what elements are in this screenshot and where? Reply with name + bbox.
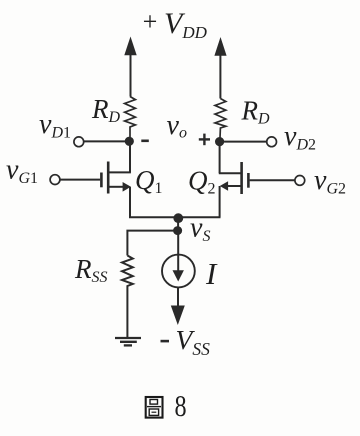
terminal vD2 — [267, 137, 277, 147]
transistor Q1 — [101, 162, 130, 194]
svg-text:8: 8 — [175, 389, 187, 424]
svg-text:Q2: Q2 — [188, 166, 216, 198]
wire drain left — [129, 141, 131, 172]
transistor Q2 — [219, 162, 249, 194]
svg-text:vD2: vD2 — [284, 121, 316, 154]
wire vD2 — [224, 141, 267, 143]
wire source Q2 — [219, 186, 221, 217]
svg-text:RD: RD — [91, 94, 121, 126]
terminal vG1 — [50, 175, 60, 185]
VSS arrow — [171, 306, 185, 326]
svg-text:+: + — [141, 7, 159, 36]
wire gate Q1 — [60, 179, 100, 181]
svg-text:VDD: VDD — [164, 7, 208, 42]
VDD arrow left — [124, 37, 136, 97]
node source upper — [173, 213, 183, 223]
wire node stub — [177, 218, 179, 231]
wire source Q1 — [129, 187, 131, 218]
svg-text:RD: RD — [241, 96, 271, 128]
current source I — [162, 255, 195, 288]
wire common source — [129, 216, 221, 218]
svg-text:vG2: vG2 — [314, 165, 346, 198]
wire vD1 — [84, 140, 129, 142]
svg-text:I: I — [205, 256, 218, 291]
resistor RSS — [122, 256, 133, 338]
label +VDD — [141, 7, 208, 42]
VDD arrow right — [214, 37, 226, 99]
svg-text:Q1: Q1 — [135, 165, 163, 197]
node drain right — [215, 137, 224, 146]
wire gate Q2 — [250, 179, 295, 181]
svg-text:vD1: vD1 — [39, 109, 71, 142]
svg-text:vG1: vG1 — [6, 155, 38, 188]
node source lower — [173, 226, 182, 235]
svg-text:RSS: RSS — [74, 254, 108, 286]
svg-text:vo: vo — [167, 110, 187, 142]
label vo minus — [141, 140, 149, 143]
caption figure glyph — [146, 397, 163, 418]
label vo plus — [199, 134, 210, 146]
terminal vG2 — [295, 176, 305, 186]
label -VSS — [161, 324, 211, 359]
wire drain right — [219, 142, 221, 174]
wire into current source — [177, 231, 179, 272]
resistor RD right — [215, 99, 226, 139]
wire below current source — [177, 287, 179, 306]
svg-text:VSS: VSS — [176, 324, 211, 359]
terminal vD1 — [74, 137, 84, 147]
wire to RSS — [127, 231, 177, 256]
node drain left — [125, 137, 134, 146]
resistor RD left — [125, 97, 136, 138]
ground — [115, 338, 141, 345]
